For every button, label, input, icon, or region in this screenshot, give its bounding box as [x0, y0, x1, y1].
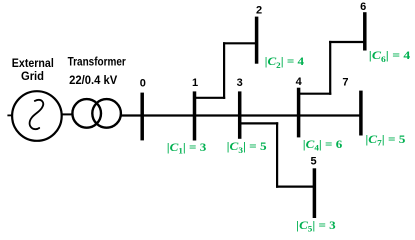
busbar node 4: [297, 88, 301, 138]
svg-text:|C5| = 3: |C5| = 3: [296, 220, 336, 234]
svg-text:7: 7: [342, 76, 348, 88]
external grid source G: [12, 91, 62, 141]
wire downcomer to node5 (branch 3-5): [276, 186, 313, 188]
svg-text:22/0.4 kV: 22/0.4 kV: [69, 73, 117, 87]
wire stub left of external grid: [7, 114, 12, 116]
busbar node 7: [359, 91, 363, 136]
wire downcomer (branch 3-5): [276, 122, 278, 187]
svg-text:|C4| = 6: |C4| = 6: [303, 139, 343, 153]
wire grid to transformer: [62, 113, 72, 115]
svg-text:|C7| = 5: |C7| = 5: [365, 134, 405, 148]
busbar node 5: [313, 168, 317, 218]
busbar node 2: [255, 17, 259, 64]
svg-text:6: 6: [360, 1, 366, 13]
transformer T1: [72, 99, 121, 128]
wire riser to node2 (branch 1-2): [223, 42, 256, 44]
wire riser (branch 4-6): [329, 41, 331, 95]
svg-text:Grid: Grid: [21, 69, 44, 83]
svg-text:External: External: [12, 56, 54, 70]
label: External Grid: [12, 56, 54, 83]
svg-text:0: 0: [140, 78, 146, 90]
svg-text:2: 2: [256, 4, 262, 16]
busbar node 0: [140, 93, 144, 141]
svg-text:Transformer: Transformer: [68, 55, 126, 69]
label: Transformer 22/0.4 kV: [68, 55, 126, 87]
svg-text:|C3| = 5: |C3| = 5: [227, 141, 267, 155]
busbar node 6: [363, 12, 367, 50]
svg-text:1: 1: [192, 77, 198, 89]
wire node4 to riser (branch 4-6): [299, 93, 332, 95]
svg-text:3: 3: [237, 77, 243, 89]
wire riser to node6 (branch 4-6): [329, 41, 364, 43]
wire node3 to downcomer (branch 3-5): [240, 122, 279, 124]
svg-text:|C2| = 4: |C2| = 4: [265, 56, 305, 70]
svg-text:|C1| = 3: |C1| = 3: [167, 142, 207, 156]
svg-text:4: 4: [296, 76, 303, 88]
busbar node 3: [238, 91, 242, 138]
wire: main bus transformer to node 7: [121, 114, 361, 116]
svg-text:|C6| = 4: |C6| = 4: [369, 50, 411, 64]
svg-text:5: 5: [310, 156, 316, 168]
wire riser (branch 1-2): [223, 42, 225, 99]
busbar node 1: [193, 91, 197, 140]
wire node1 to riser (branch 1-2): [195, 97, 226, 99]
